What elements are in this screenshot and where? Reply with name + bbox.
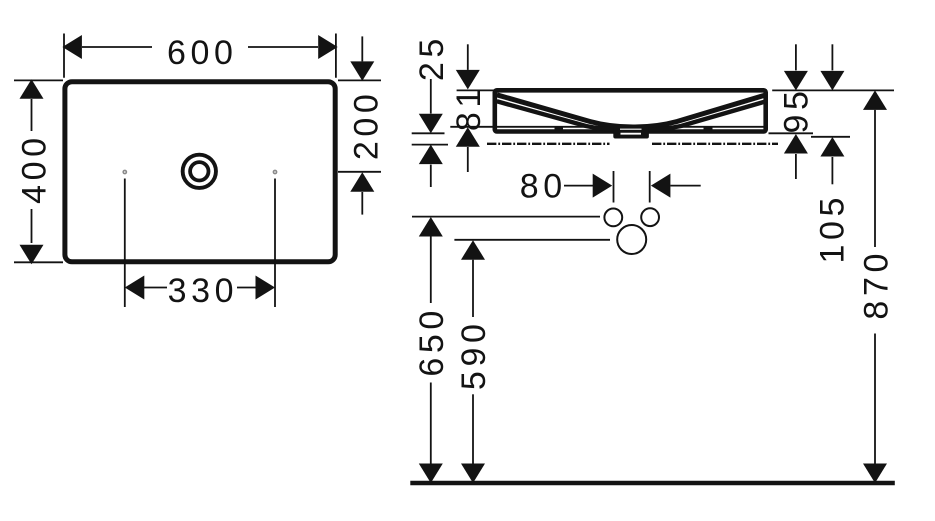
- svg-text:330: 330: [168, 272, 239, 310]
- dim 400 extension lines: [14, 80, 63, 262]
- dim 105 stem top: [831, 44, 833, 70]
- dim 105 arrow up: [820, 137, 844, 157]
- dim 81 stem top: [467, 44, 469, 70]
- dim 80 arrow right: [593, 174, 613, 198]
- svg-text:400: 400: [16, 133, 54, 204]
- tap hole big: [617, 225, 646, 254]
- dim 200 stem top: [361, 36, 363, 61]
- right ext of basin bottom: [769, 132, 814, 134]
- dim 81 arrow down: [456, 70, 480, 90]
- drain outer circle: [183, 155, 216, 188]
- dim 330 line: [144, 287, 256, 289]
- dim 25 arrow up: [419, 145, 443, 165]
- dim 650 arrow bottom: [419, 464, 443, 484]
- tap hole right: [641, 208, 659, 226]
- right ext line 105: [811, 136, 850, 138]
- fixing mark right: [704, 127, 713, 131]
- dim 650 stem lower: [430, 383, 432, 464]
- dim 200 extension bottom: [338, 171, 381, 173]
- svg-text:650: 650: [413, 306, 451, 377]
- bowl curve lower left: [497, 101, 620, 129]
- svg-text:590: 590: [455, 320, 493, 391]
- drain stub: [613, 126, 649, 139]
- hole centre line left: [124, 179, 126, 308]
- dim 95 arrow down: [784, 71, 808, 91]
- dim 95 stem top: [795, 44, 797, 70]
- dim 400 line: [31, 99, 33, 243]
- dim 400 arrow top: [20, 79, 44, 99]
- dim 25 stem top: [430, 79, 432, 114]
- svg-text:95: 95: [777, 86, 815, 133]
- dim 650 stem upper: [430, 237, 432, 304]
- dim 80 line right: [670, 185, 700, 187]
- svg-text:25: 25: [413, 34, 451, 81]
- dim 200 extension top: [338, 79, 381, 81]
- dim 80 tap line left: [613, 171, 615, 203]
- dim 81 stem bottom: [467, 147, 469, 172]
- drain white sliver upper: [620, 128, 642, 130]
- dim 590 stem lower: [472, 394, 474, 463]
- mounting dashed line right: [652, 143, 778, 145]
- dim 600 arrow left: [62, 35, 82, 59]
- dim 80 arrow left: [651, 174, 671, 198]
- fixing hole dot right: [273, 170, 276, 173]
- basin side-view outline: [495, 90, 766, 131]
- dim 95 stem bottom: [795, 154, 797, 179]
- svg-text:870: 870: [857, 249, 895, 320]
- svg-text:80: 80: [520, 167, 567, 205]
- top ext line right: [772, 89, 894, 91]
- dim 650 ref line: [412, 216, 600, 218]
- drain inner ring: [190, 162, 208, 180]
- dim 105 arrow down: [820, 71, 844, 91]
- dim 81 arrow up: [456, 127, 480, 147]
- drain white sliver lower: [621, 133, 642, 135]
- bowl curve upper left: [497, 95, 633, 127]
- dim 95 arrow up: [784, 134, 808, 154]
- dim 870 arrow top: [863, 90, 887, 110]
- dim 590 stem upper: [472, 260, 474, 317]
- bowl inner bottom line: [450, 126, 765, 128]
- dim 330 arrow left: [125, 276, 145, 300]
- dim 870 arrow bottom: [863, 464, 887, 484]
- dim 870 stem lower: [874, 334, 876, 464]
- svg-text:600: 600: [167, 34, 238, 72]
- svg-text:81: 81: [450, 84, 488, 131]
- dim 650 arrow top: [419, 217, 443, 237]
- dim 80 tap line right: [649, 171, 651, 203]
- dim 590 arrow bottom: [461, 464, 485, 484]
- dim 870 stem upper: [874, 110, 876, 247]
- svg-text:105: 105: [814, 193, 852, 264]
- dim 600 extension lines: [64, 34, 336, 78]
- svg-text:200: 200: [347, 90, 385, 161]
- dim 590 ref line: [454, 239, 610, 241]
- dim 25 stem bottom: [430, 165, 432, 187]
- dim 200 arrow down: [350, 61, 374, 81]
- dim 600 line: [82, 46, 318, 48]
- fixing mark left: [555, 127, 564, 131]
- mounting dashed line: [487, 143, 610, 145]
- fixing hole dot left: [123, 170, 126, 173]
- basin top-view outline: [65, 82, 335, 262]
- dim 590 arrow top: [461, 240, 485, 260]
- left ext of basin bottom: [412, 132, 445, 134]
- bowl curve upper right: [633, 95, 766, 127]
- dim 600 arrow right: [318, 35, 338, 59]
- tap hole left: [604, 209, 622, 227]
- dim 25 arrow down: [419, 114, 443, 134]
- top ext line left: [457, 89, 494, 91]
- dim 80 line left: [564, 185, 594, 187]
- floor line: [410, 481, 895, 486]
- dim 200 stem bottom: [361, 192, 363, 215]
- dim 105 stem bottom: [831, 157, 833, 184]
- dim 330 arrow right: [256, 276, 276, 300]
- bowl curve lower right: [645, 101, 766, 129]
- hole centre line right: [274, 179, 276, 308]
- dim 200 arrow up: [350, 172, 374, 192]
- left ext of mounting line: [412, 144, 448, 146]
- dim 400 arrow bottom: [20, 245, 44, 265]
